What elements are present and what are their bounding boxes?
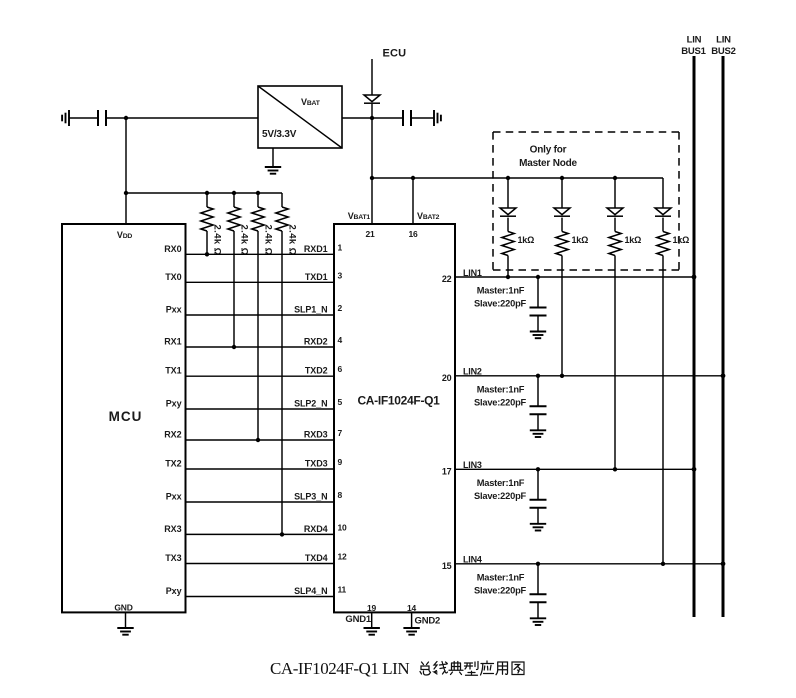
- svg-text:Pxx: Pxx: [166, 492, 182, 502]
- wire LIN4: [455, 563, 723, 565]
- svg-text:14: 14: [407, 603, 417, 613]
- svg-text:Master:1nF: Master:1nF: [477, 384, 525, 394]
- wire RXD1: [186, 253, 335, 255]
- svg-text:GND2: GND2: [415, 616, 441, 627]
- svg-text:1kΩ: 1kΩ: [572, 235, 589, 245]
- voltage regulator U2 (VBAT to 5V/3.3V): [258, 86, 342, 148]
- svg-text:12: 12: [338, 552, 348, 562]
- junction: R4 to wire: [280, 532, 284, 536]
- wire SLP1_N: [186, 314, 335, 316]
- wire: left ground to capacitor C1: [69, 117, 98, 119]
- svg-text:10: 10: [338, 522, 348, 532]
- svg-text:TXD1: TXD1: [305, 272, 328, 282]
- capacitor C4 on LIN2: [530, 376, 547, 431]
- capacitor C3 on LIN1: [530, 277, 547, 332]
- wire: VBAT rail (horizontal): [372, 177, 663, 179]
- junction: VBAT rail at VBAT2: [411, 176, 415, 180]
- svg-text:22: 22: [442, 274, 452, 284]
- junction: R3 to wire: [256, 438, 260, 442]
- wire SLP4_N: [186, 596, 335, 598]
- svg-text:9: 9: [338, 457, 343, 467]
- wire LIN2: [455, 375, 723, 377]
- svg-text:1kΩ: 1kΩ: [518, 235, 535, 245]
- wire: ECU to diode D1 anode: [371, 59, 373, 95]
- svg-text:RX1: RX1: [164, 337, 181, 347]
- wire RXD4: [186, 533, 335, 535]
- wire: GND2 pin 14 stub: [411, 612, 413, 628]
- ground symbol (input filter cap, left): [62, 110, 69, 126]
- svg-text:TX1: TX1: [165, 366, 181, 376]
- junction: LIN3 cap tap: [536, 467, 540, 471]
- svg-text:Pxy: Pxy: [166, 586, 182, 596]
- wire SLP2_N: [186, 408, 335, 410]
- svg-text:TX2: TX2: [165, 459, 181, 469]
- svg-text:SLP3_N: SLP3_N: [294, 492, 327, 502]
- resistor R1 2.4k ohm pullup: [201, 193, 223, 256]
- wire RXD2: [186, 346, 335, 348]
- wire TXD4: [186, 563, 335, 565]
- svg-text:RXD1: RXD1: [304, 244, 328, 254]
- svg-text:MCU: MCU: [109, 409, 143, 424]
- wire: VDD vertical into MCU: [125, 118, 127, 224]
- wire TXD2: [186, 375, 335, 377]
- svg-text:CA-IF1024F-Q1 LIN: CA-IF1024F-Q1 LIN: [270, 659, 409, 678]
- svg-text:11: 11: [338, 585, 347, 595]
- wire SLP3_N: [186, 501, 335, 503]
- svg-text:1kΩ: 1kΩ: [673, 235, 690, 245]
- svg-text:6: 6: [338, 364, 343, 374]
- svg-text:BUS2: BUS2: [711, 46, 736, 57]
- net LIN BUS1 (vertical bus): [681, 35, 706, 618]
- junction: VBAT rail at chain 1: [506, 176, 510, 180]
- ground symbol (LIN3 cap): [530, 524, 546, 531]
- wire: C2 to right ground: [411, 117, 434, 119]
- junction: R2 to wire: [232, 345, 236, 349]
- svg-text:RX0: RX0: [164, 244, 181, 254]
- junction: LIN2 to bus: [721, 373, 726, 378]
- diode D3 (master pullup ch2): [554, 178, 570, 216]
- svg-text:ECU: ECU: [383, 48, 407, 60]
- svg-text:Master Node: Master Node: [519, 158, 577, 169]
- ground symbol (LIN1 cap): [530, 332, 546, 339]
- junction: VDD node tap: [124, 116, 128, 120]
- capacitor C2 (VBAT filter): [403, 110, 411, 126]
- svg-text:Only for: Only for: [530, 145, 567, 156]
- junction: chain 3 to LIN3: [613, 467, 617, 471]
- resistor R4 2.4k ohm pullup: [276, 193, 298, 534]
- svg-text:GND: GND: [114, 603, 132, 613]
- wire: regulator output to ECU diode node: [342, 117, 372, 119]
- svg-text:16: 16: [408, 229, 418, 239]
- svg-text:CA-IF1024F-Q1: CA-IF1024F-Q1: [357, 394, 440, 408]
- ground symbol GND2: [403, 628, 419, 635]
- value label Master/Slave cap LIN2: [474, 384, 527, 407]
- svg-text:2.4k Ω: 2.4k Ω: [212, 225, 223, 256]
- wire LIN1: [455, 276, 694, 278]
- junction: rail to R3: [256, 191, 260, 195]
- wire: regulator ground stub: [272, 148, 274, 167]
- resistor R2 2.4k ohm pullup: [228, 193, 250, 347]
- svg-text:4: 4: [338, 335, 343, 345]
- wire TXD3: [186, 468, 335, 470]
- svg-text:SLP2_N: SLP2_N: [294, 399, 327, 409]
- svg-text:5: 5: [338, 397, 343, 407]
- svg-text:LIN4: LIN4: [463, 555, 482, 565]
- net LIN BUS2 (vertical bus): [711, 35, 736, 618]
- diode D2 (master pullup ch1): [500, 178, 516, 216]
- MCU U3 box: [62, 224, 186, 613]
- junction: rail to R1: [205, 191, 209, 195]
- capacitor C1 (input filter): [98, 110, 106, 126]
- svg-text:2.4k Ω: 2.4k Ω: [287, 225, 298, 256]
- svg-text:Pxx: Pxx: [166, 305, 182, 315]
- svg-text:Slave:220pF: Slave:220pF: [474, 397, 527, 407]
- junction: LIN3 to bus: [692, 467, 697, 472]
- wire: VDD pullup rail: [126, 192, 282, 194]
- svg-text:2: 2: [338, 303, 343, 313]
- value label Master/Slave cap LIN4: [474, 572, 527, 595]
- svg-text:LIN2: LIN2: [463, 367, 482, 377]
- resistor R7 1k ohm: [609, 218, 641, 470]
- resistor R3 2.4k ohm pullup: [252, 193, 274, 440]
- svg-text:SLP1_N: SLP1_N: [294, 305, 327, 315]
- svg-text:1: 1: [338, 242, 343, 252]
- svg-text:RX2: RX2: [164, 430, 181, 440]
- svg-text:20: 20: [442, 373, 452, 383]
- svg-text:Master:1nF: Master:1nF: [477, 286, 525, 296]
- resistor R5 1k ohm: [502, 218, 534, 277]
- svg-text:TXD4: TXD4: [305, 553, 328, 563]
- junction: VDD rail tap: [124, 191, 128, 195]
- junction: chain 1 to LIN1: [506, 275, 510, 279]
- resistor R6 1k ohm: [556, 218, 588, 376]
- svg-text:TXD3: TXD3: [305, 459, 328, 469]
- junction: rail to R2: [232, 191, 236, 195]
- diode D1 (reverse battery): [364, 95, 380, 103]
- junction: VBAT node: [370, 116, 374, 120]
- junction: VBAT rail at chain 3: [613, 176, 617, 180]
- svg-text:TX3: TX3: [165, 553, 181, 563]
- dashed box: Only for Master Node: [493, 132, 679, 270]
- wire: GND1 pin 19 stub: [371, 612, 373, 628]
- svg-text:Slave:220pF: Slave:220pF: [474, 299, 527, 309]
- svg-text:LIN: LIN: [687, 35, 702, 46]
- junction: chain 2 to LIN2: [560, 374, 564, 378]
- capacitor C5 on LIN3: [530, 469, 547, 524]
- junction: LIN2 cap tap: [536, 374, 540, 378]
- junction: VBAT rail at VBAT1: [370, 176, 374, 180]
- wire: C1 to regulator input: [106, 117, 258, 119]
- junction: LIN4 cap tap: [536, 562, 540, 566]
- svg-text:RX3: RX3: [164, 524, 181, 534]
- svg-text:Master:1nF: Master:1nF: [477, 572, 525, 582]
- ground symbol (regulator): [265, 167, 281, 174]
- svg-text:LIN1: LIN1: [463, 268, 482, 278]
- svg-text:Slave:220pF: Slave:220pF: [474, 585, 527, 595]
- svg-text:5V/3.3V: 5V/3.3V: [262, 129, 297, 140]
- svg-text:GND1: GND1: [345, 614, 372, 625]
- svg-text:Pxy: Pxy: [166, 399, 182, 409]
- ground symbol (LIN2 cap): [530, 430, 546, 437]
- junction: LIN1 to bus: [692, 275, 697, 280]
- svg-text:RXD3: RXD3: [304, 430, 328, 440]
- junction: VBAT rail at chain 2: [560, 176, 564, 180]
- resistor R8 1k ohm: [657, 218, 689, 564]
- wire: D1 cathode to VBAT node: [371, 104, 373, 118]
- value label Master/Slave cap LIN1: [474, 286, 527, 309]
- ground symbol (MCU GND): [117, 628, 133, 635]
- junction: LIN1 cap tap: [536, 275, 540, 279]
- capacitor C6 on LIN4: [530, 564, 547, 619]
- ground symbol GND1: [364, 628, 380, 635]
- svg-text:RXD4: RXD4: [304, 524, 328, 534]
- svg-text:SLP4_N: SLP4_N: [294, 586, 327, 596]
- junction: LIN4 to bus: [721, 561, 726, 566]
- diode D4 (master pullup ch3): [607, 178, 623, 216]
- svg-text:Slave:220pF: Slave:220pF: [474, 491, 527, 501]
- svg-text:2.4k Ω: 2.4k Ω: [239, 225, 250, 256]
- svg-text:3: 3: [338, 270, 343, 280]
- svg-text:LIN: LIN: [716, 35, 731, 46]
- junction: R1 to wire: [205, 252, 209, 256]
- svg-text:15: 15: [442, 561, 452, 571]
- wire: VBAT node down to VBAT rail: [371, 118, 373, 178]
- svg-text:17: 17: [442, 467, 452, 477]
- svg-text:7: 7: [338, 428, 343, 438]
- svg-text:RXD2: RXD2: [304, 337, 328, 347]
- wire TXD1: [186, 281, 335, 283]
- svg-text:2.4k Ω: 2.4k Ω: [263, 225, 274, 256]
- svg-text:TXD2: TXD2: [305, 366, 328, 376]
- svg-text:LIN3: LIN3: [463, 460, 482, 470]
- ground symbol (VBAT filter cap, right): [434, 110, 441, 126]
- svg-text:8: 8: [338, 490, 343, 500]
- wire LIN3: [455, 468, 694, 470]
- ground symbol (LIN4 cap): [530, 618, 546, 625]
- transceiver U1 CA-IF1024F-Q1 box: [334, 224, 455, 612]
- svg-text:BUS1: BUS1: [681, 46, 706, 57]
- svg-text:19: 19: [367, 603, 377, 613]
- svg-text:21: 21: [365, 229, 375, 239]
- junction: chain 4 to LIN4: [661, 562, 665, 566]
- wire: VBAT1 pin 21: [371, 178, 373, 224]
- value label Master/Slave cap LIN3: [474, 478, 527, 501]
- svg-text:TX0: TX0: [165, 272, 181, 282]
- diode D5 (master pullup ch4): [655, 178, 671, 216]
- svg-text:Master:1nF: Master:1nF: [477, 478, 525, 488]
- wire: VBAT node to capacitor C2: [372, 117, 403, 119]
- wire RXD3: [186, 439, 335, 441]
- wire: VBAT2 pin 16: [412, 178, 414, 224]
- svg-text:1kΩ: 1kΩ: [625, 235, 642, 245]
- wire: MCU ground stub: [125, 612, 127, 628]
